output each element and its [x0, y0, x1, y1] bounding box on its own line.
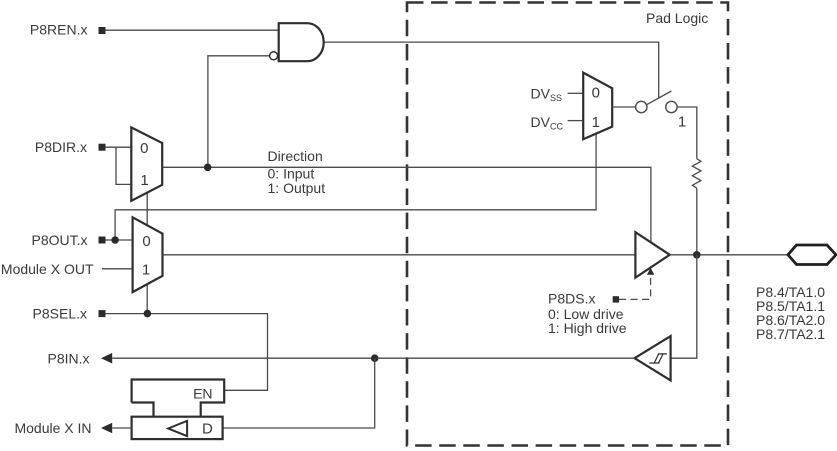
- wire P8DIR.x branch to mux U2 input 1: [116, 147, 131, 184]
- resistor R1 pull resistor: [692, 159, 701, 189]
- label Direction legend: [268, 148, 326, 196]
- svg-text:1: 1: [140, 172, 148, 189]
- label drive strength legend: [548, 306, 627, 336]
- node P8SEL junction: [144, 310, 152, 318]
- svg-text:P8DS.x: P8DS.x: [548, 290, 595, 306]
- arrowhead P8DS into driver: [647, 268, 654, 275]
- switch S1 lever: [646, 91, 672, 105]
- svg-text:EN: EN: [193, 385, 212, 401]
- svg-text:D: D: [202, 420, 213, 437]
- terminal square P8DIR.x: [99, 144, 106, 151]
- wire U3 output to output driver: [163, 254, 636, 256]
- pad hexagon: [788, 245, 836, 265]
- wire pad node to Schmitt input: [671, 255, 697, 358]
- svg-text:Module X OUT: Module X OUT: [1, 261, 94, 277]
- wire P8REN.x to AND gate input: [106, 29, 279, 31]
- wire P8SEL.x to EN latch: [106, 314, 268, 391]
- svg-text:0: 0: [140, 140, 148, 157]
- svg-text:1: 1: [142, 262, 150, 279]
- svg-text:P8OUT.x: P8OUT.x: [31, 232, 87, 248]
- wire switch to resistor: [677, 107, 697, 159]
- mux U3 P8OUT / Module X OUT: [133, 217, 163, 292]
- wire P8OUT.x branch to pull mux U4 select: [115, 134, 596, 240]
- node P8IN junction: [371, 354, 379, 362]
- wire DVcc stub: [568, 120, 584, 122]
- node Direction junction: [204, 164, 212, 172]
- arrow Module X IN: [101, 423, 112, 434]
- svg-text:1: High drive: 1: High drive: [548, 320, 627, 336]
- svg-text:0: 0: [592, 85, 600, 102]
- terminal square P8REN.x: [99, 27, 106, 34]
- latch EN box: [132, 380, 225, 417]
- svg-text:1: Output: 1: Output: [268, 180, 326, 196]
- inverting bubble on U1 lower input: [270, 52, 278, 60]
- wire P8OUT.x to mux U3 input 0: [106, 239, 133, 241]
- svg-text:P8REN.x: P8REN.x: [30, 22, 88, 38]
- svg-text:P8IN.x: P8IN.x: [47, 351, 89, 367]
- terminal square P8OUT.x: [99, 237, 106, 244]
- svg-text:0: 0: [142, 233, 150, 250]
- wire resistor to pad node: [696, 188, 698, 255]
- svg-text:Module X IN: Module X IN: [14, 420, 91, 436]
- svg-text:Direction: Direction: [268, 148, 323, 164]
- wire P8DIR.x to mux U2 input 0: [106, 146, 132, 148]
- svg-text:P8.7/TA2.1: P8.7/TA2.1: [756, 326, 825, 342]
- clock triangle in D latch: [168, 421, 187, 436]
- label port pins: [756, 284, 825, 342]
- terminal square P8DS.x: [613, 296, 619, 302]
- dashed wire P8DS.x to driver drive-strength input: [619, 275, 651, 300]
- wire DVss stub: [568, 92, 584, 94]
- svg-text:P8SEL.x: P8SEL.x: [33, 306, 87, 322]
- node pad junction: [693, 251, 701, 259]
- svg-text:Pad Logic: Pad Logic: [646, 10, 708, 26]
- node P8OUT junction: [111, 236, 119, 244]
- wire Direction (U2 output to output driver enable): [162, 167, 651, 242]
- wire P8IN node to D latch input: [223, 358, 375, 428]
- wire AND gate output to switch control: [324, 42, 659, 98]
- mux U2 P8DIR select: [131, 127, 162, 200]
- svg-text:P8DIR.x: P8DIR.x: [35, 139, 87, 155]
- svg-text:1: 1: [678, 113, 686, 130]
- Schmitt trigger input buffer U6: [635, 336, 671, 380]
- output driver U5: [635, 232, 669, 278]
- arrow P8IN.x: [101, 353, 112, 364]
- wire Direction node to inverting input of AND gate: [208, 56, 270, 168]
- wire P8SEL select line to both muxes: [146, 193, 148, 314]
- wire D latch to Module X IN: [112, 427, 131, 429]
- wire U4 output to switch: [612, 106, 635, 108]
- svg-text:1: 1: [592, 114, 600, 131]
- dashed Pad Logic box: [407, 3, 728, 446]
- wire Module X OUT to mux U3 input 1: [102, 268, 133, 270]
- switch S1 left contact: [636, 101, 647, 112]
- AND gate U1 (pull resistor enable): [279, 23, 324, 61]
- latch D box: [132, 417, 223, 439]
- mux U4 pull-up/pull-down select: [583, 73, 612, 140]
- terminal square P8SEL.x: [99, 310, 106, 317]
- switch S1 right contact: [666, 101, 677, 112]
- wire Schmitt output to P8IN: [112, 357, 634, 359]
- wire driver output to pad: [670, 254, 788, 256]
